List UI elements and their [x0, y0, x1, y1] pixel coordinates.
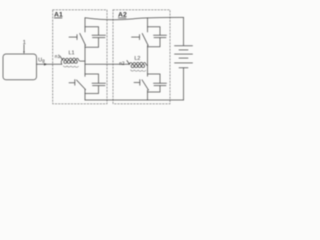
module A1 dashed box	[53, 10, 107, 104]
wire battery top lead	[183, 17, 185, 45]
switch S4 blade	[142, 80, 149, 90]
label 1 leader arrow	[23, 45, 25, 54]
wire A2 mid branch	[147, 46, 149, 77]
switch S2 blade	[77, 80, 86, 90]
svg-text:1: 1	[23, 40, 26, 46]
A2 upper branch wire	[147, 18, 149, 32]
wire A1 lower branch	[84, 89, 86, 100]
wire L1 to A1 midpoint	[79, 60, 85, 61]
switch S2 gate bar	[74, 80, 76, 86]
switch S1 gate bar	[76, 35, 78, 40]
module A2 dashed box	[113, 10, 170, 104]
switch S4 gate bar	[139, 80, 141, 86]
wire L2 to A2 midpoint	[146, 64, 148, 65]
svg-text:n2: n2	[119, 61, 125, 67]
n2 arrow	[127, 61, 130, 65]
switch S1 blade	[80, 33, 86, 45]
capacitor C3 loop	[148, 27, 161, 47]
svg-text:L1: L1	[69, 50, 75, 56]
capacitor C4 loop	[148, 74, 161, 92]
svg-text:n1: n1	[55, 54, 61, 60]
battery B plates	[175, 46, 193, 68]
A1 upper branch wire	[84, 18, 86, 32]
switch S1 gate lead	[69, 36, 77, 38]
wire A1 midpoint to A2 (node between modules)	[85, 63, 129, 65]
svg-text:Ug: Ug	[38, 57, 45, 63]
capacitor C4 plates	[154, 83, 167, 85]
box 1 (source block)	[3, 54, 37, 80]
switch S3 gate bar	[139, 35, 141, 40]
wire bottom bus	[85, 99, 184, 101]
capacitor C1 plates	[92, 35, 106, 37]
winding L2 (n2 turns)	[129, 62, 146, 71]
switch S3 gate lead	[132, 36, 140, 38]
label A1	[54, 12, 63, 19]
n1 arrow	[60, 56, 63, 61]
wire Ug input	[37, 63, 62, 65]
wire top bus	[85, 17, 184, 19]
wire A1 mid branch	[84, 45, 86, 76]
wire A2 lower branch	[147, 90, 149, 100]
arrowhead on input wire	[44, 63, 47, 66]
capacitor C3 plates	[154, 35, 167, 37]
switch S3 blade	[142, 33, 148, 45]
svg-text:L2: L2	[134, 56, 140, 62]
switch S2 gate lead	[69, 82, 75, 84]
switch S4 gate lead	[134, 82, 140, 84]
capacitor C2 loop	[85, 74, 99, 94]
label A2	[118, 12, 127, 19]
capacitor C1 loop	[85, 27, 99, 48]
winding L1 (n1 turns)	[61, 58, 78, 67]
wire battery bottom lead	[183, 68, 185, 100]
capacitor C2 plates	[92, 83, 106, 85]
